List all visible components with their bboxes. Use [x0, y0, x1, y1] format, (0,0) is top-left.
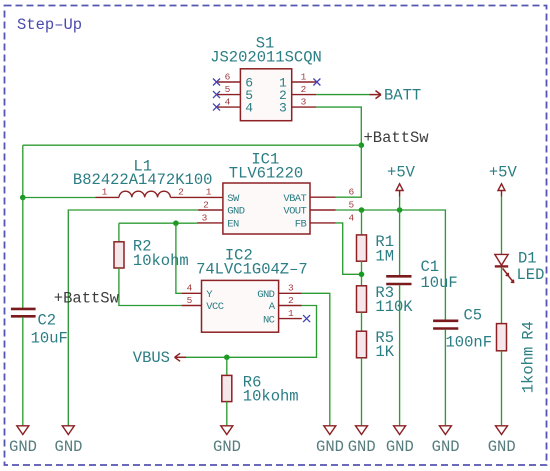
svg-text:SW: SW	[227, 193, 240, 205]
svg-text:110K: 110K	[375, 298, 413, 316]
S1 pin 6	[217, 71, 254, 90]
global label VBUS arrow	[175, 353, 186, 361]
svg-text:GND: GND	[9, 438, 37, 456]
power +5V (right)	[489, 163, 518, 196]
wire R4 to ground	[501, 351, 503, 426]
IC1 pin 3 EN	[197, 212, 239, 230]
svg-text:5: 5	[348, 199, 354, 210]
wire S1 pin2 to BATT	[316, 94, 369, 96]
svg-text:10uF: 10uF	[31, 330, 68, 348]
svg-text:GND: GND	[348, 438, 376, 456]
IC1 pin 2 GND	[198, 199, 245, 217]
wire R6 to ground	[226, 402, 228, 426]
S1 pin 1	[279, 71, 316, 90]
ground under C5	[432, 426, 460, 456]
svg-text:TLV61220: TLV61220	[229, 164, 303, 182]
svg-text:GND: GND	[213, 438, 241, 456]
IC1 pin 6 VBAT	[283, 187, 354, 205]
wire junction to L1	[23, 197, 96, 199]
svg-text:2: 2	[288, 295, 294, 306]
svg-text:3: 3	[202, 212, 208, 223]
wire BattSw horizontal run	[23, 144, 362, 146]
svg-text:2: 2	[301, 84, 307, 95]
wire IC2 GND to ground	[302, 293, 330, 426]
svg-text:10uF: 10uF	[421, 274, 458, 292]
D1 emission arrows	[503, 268, 514, 282]
svg-text:10kohm: 10kohm	[243, 388, 299, 406]
switch S1 body	[240, 69, 291, 121]
svg-text:1: 1	[288, 308, 294, 319]
svg-text:LED: LED	[517, 266, 545, 284]
svg-text:Step–Up: Step–Up	[17, 16, 82, 34]
wire from junction down to VBAT	[336, 145, 362, 197]
inductor L1	[95, 191, 223, 197]
svg-text:VBUS: VBUS	[133, 349, 170, 367]
svg-text:+BattSw: +BattSw	[364, 129, 430, 147]
svg-text:74LVC1G04Z–7: 74LVC1G04Z–7	[196, 261, 308, 279]
global label BATT arrow	[370, 91, 382, 99]
no-connect X on S1 pin 1	[313, 79, 320, 86]
svg-text:+BattSw: +BattSw	[54, 290, 120, 308]
svg-text:4: 4	[348, 212, 354, 223]
IC2 pin 4 Y	[182, 283, 214, 301]
ground under R6	[213, 426, 241, 456]
inverter IC2 body	[202, 280, 279, 332]
svg-text:4: 4	[245, 101, 253, 116]
IC1 pin 1 SW	[206, 187, 240, 205]
wire C5 to ground	[444, 329, 446, 426]
junction on EN run	[173, 220, 179, 226]
wire R3 to R5	[361, 312, 363, 331]
IC2 pin 5 VCC	[182, 295, 224, 313]
no-connect X on S1 pin 6	[213, 79, 220, 86]
svg-text:C2: C2	[38, 312, 57, 330]
wire C2 (from BattSw rail)	[22, 307, 24, 308]
svg-text:1: 1	[206, 187, 212, 198]
wire EN junction down to IC2 Y	[176, 223, 182, 293]
IC1 pin 5 VOUT	[283, 199, 354, 217]
svg-text:NC: NC	[263, 314, 275, 326]
svg-text:B82422A1472K100: B82422A1472K100	[73, 171, 213, 189]
svg-text:VCC: VCC	[206, 301, 223, 313]
junction on VBUS rail	[224, 355, 230, 361]
junction at L1 input	[20, 195, 26, 201]
capacitor C5	[433, 321, 458, 329]
ground under C2	[9, 426, 37, 456]
svg-text:BATT: BATT	[384, 86, 421, 104]
wire EN to R2 top	[118, 223, 120, 242]
svg-text:3: 3	[288, 283, 294, 294]
svg-text:VBAT: VBAT	[283, 193, 306, 205]
wire R2 bottom to IC2 VCC	[119, 268, 182, 306]
S1 pin 3	[279, 96, 316, 115]
IC2 pin 2 A	[269, 295, 302, 313]
svg-text:C5: C5	[464, 307, 483, 325]
capacitor C2	[11, 309, 36, 316]
svg-text:1K: 1K	[375, 343, 394, 361]
wire +5V to VOUT rail and C1	[399, 197, 401, 276]
junction FB divider	[359, 272, 365, 278]
junction VOUT at +5V	[397, 207, 403, 213]
ground under C1	[386, 426, 414, 456]
LED D1	[495, 254, 508, 266]
wire S1 pin3 right then down	[316, 107, 361, 145]
op-amp IC1 body	[223, 183, 310, 234]
svg-text:GND: GND	[55, 438, 83, 456]
resistor R3	[357, 286, 367, 312]
svg-text:R4: R4	[520, 321, 538, 340]
svg-text:6: 6	[348, 187, 354, 198]
wire +5V to D1	[501, 197, 503, 255]
wire C2 to ground	[22, 317, 24, 426]
resistor R6	[222, 375, 232, 401]
svg-text:GND: GND	[227, 206, 244, 218]
wire C2 top	[22, 198, 24, 307]
resistor R5	[357, 331, 367, 358]
S1 pin 5	[217, 84, 254, 103]
no-connect X on S1 pin 4	[213, 104, 220, 111]
resistor R1	[357, 235, 367, 261]
svg-text:FB: FB	[295, 219, 307, 231]
wire R1 bottom to junction	[361, 261, 363, 286]
svg-text:100nF: 100nF	[446, 333, 493, 351]
svg-text:+5V: +5V	[489, 163, 518, 181]
svg-text:GND: GND	[386, 438, 414, 456]
S1 pin 4	[217, 96, 254, 115]
ground under IC1 GND rail	[55, 426, 83, 456]
svg-text:2: 2	[203, 199, 209, 210]
IC2 pin 3 GND	[257, 283, 302, 301]
wire R5 to ground	[361, 358, 363, 426]
svg-text:GND: GND	[257, 289, 274, 301]
svg-text:1kohm: 1kohm	[520, 347, 538, 394]
wire D1 to R4	[501, 268, 503, 324]
no-connect X on S1 pin 5	[213, 91, 220, 98]
svg-text:D1: D1	[518, 250, 537, 268]
svg-text:3: 3	[279, 101, 287, 116]
wire FB to divider	[336, 223, 362, 274]
svg-text:4: 4	[225, 96, 231, 107]
svg-text:GND: GND	[316, 438, 344, 456]
ground under IC2 GND	[316, 426, 344, 456]
power +5V (left)	[387, 163, 416, 196]
ground under R4	[488, 426, 516, 456]
junction at BattSw net corner	[359, 142, 365, 148]
svg-text:+5V: +5V	[387, 163, 416, 181]
junction VOUT at R1	[359, 207, 365, 213]
svg-text:1M: 1M	[375, 247, 394, 265]
resistor R4	[497, 324, 507, 351]
svg-text:VOUT: VOUT	[283, 206, 306, 218]
wire C1 to ground	[399, 285, 401, 426]
capacitor C1	[386, 276, 411, 284]
no-connect X on IC2 pin 1	[303, 315, 310, 322]
wire R1 top	[361, 210, 363, 235]
svg-text:5: 5	[225, 84, 231, 95]
svg-text:1: 1	[301, 71, 307, 82]
S1 pin 2	[279, 84, 316, 103]
ground under R5	[348, 426, 376, 456]
svg-text:6: 6	[225, 71, 231, 82]
svg-text:GND: GND	[488, 438, 516, 456]
wire IC1 GND to left rail	[68, 210, 198, 426]
resistor R2	[114, 242, 124, 268]
wire BattSw down-left vertical	[22, 145, 24, 197]
svg-text:GND: GND	[432, 438, 460, 456]
svg-text:JS202011SCQN: JS202011SCQN	[210, 49, 322, 67]
svg-text:10kohm: 10kohm	[133, 252, 189, 270]
IC1 pin 4 FB	[295, 212, 355, 230]
svg-text:3: 3	[301, 96, 307, 107]
wire junction to R6	[226, 357, 228, 375]
svg-text:4: 4	[187, 283, 193, 294]
wire IC1 EN run	[119, 222, 197, 224]
IC2 pin 1 NC	[263, 308, 302, 326]
wire VOUT rail	[336, 210, 446, 320]
svg-text:EN: EN	[227, 219, 239, 231]
wire IC2 A to VBUS rail	[186, 306, 317, 358]
svg-text:5: 5	[187, 295, 193, 306]
